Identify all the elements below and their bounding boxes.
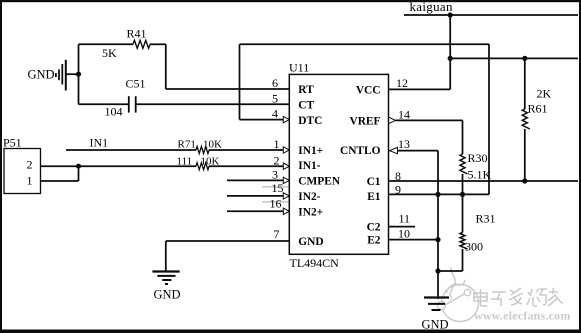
svg-text:IN2+: IN2+ — [298, 207, 323, 219]
wire: R31 bottom link — [438, 270, 463, 272]
svg-text:2: 2 — [274, 154, 280, 168]
wire: CMPEN stub pin 3 — [227, 179, 284, 181]
wire: GND line pin 7 — [166, 241, 289, 271]
svg-text:10: 10 — [398, 227, 410, 241]
wire: feedback line B top — [240, 43, 490, 45]
resistor R61 — [522, 58, 530, 181]
svg-text:5K: 5K — [102, 46, 117, 60]
resistor R30 — [460, 154, 468, 194]
svg-text:IN1-: IN1- — [298, 160, 320, 172]
svg-text:CMPEN: CMPEN — [298, 176, 341, 188]
svg-text:R41: R41 — [127, 27, 147, 41]
svg-text:8: 8 — [395, 169, 401, 183]
svg-text:CNTLO: CNTLO — [340, 145, 381, 157]
svg-text:1: 1 — [274, 137, 280, 151]
svg-text:IN1: IN1 — [90, 136, 109, 150]
pin 1 arrow — [283, 147, 289, 153]
junction R30 bottom — [460, 192, 465, 197]
wire: branch line y58 — [450, 57, 578, 59]
svg-text:111: 111 — [177, 156, 193, 168]
watermark logo — [438, 267, 479, 322]
svg-text:E2: E2 — [367, 235, 381, 247]
svg-text:R71: R71 — [178, 139, 196, 151]
junction at GND riser — [76, 72, 81, 77]
resistor R31 — [460, 194, 468, 271]
svg-text:GND: GND — [154, 288, 181, 302]
junction E2 — [435, 237, 440, 242]
svg-text:1: 1 — [27, 174, 33, 188]
resistor R41 — [133, 40, 150, 48]
pin 4 arrow — [283, 116, 289, 122]
pin 2 arrow — [283, 163, 289, 169]
junction R61 bottom — [522, 178, 527, 183]
wire: CT line pin 5 with C51 — [79, 103, 290, 105]
svg-text:R30: R30 — [468, 151, 488, 165]
svg-text:14: 14 — [398, 108, 410, 122]
svg-text:11: 11 — [399, 212, 411, 226]
svg-text:R61: R61 — [528, 102, 548, 116]
pin 16 arrow — [283, 208, 289, 214]
wire: vertical x240 to DTC — [239, 44, 241, 119]
svg-text:3: 3 — [272, 168, 278, 182]
pin 3 arrow — [283, 177, 289, 183]
wire: C1 pin 8 line — [389, 180, 579, 182]
wire: VCC pin 12 — [389, 15, 451, 89]
svg-text:10K: 10K — [201, 156, 220, 168]
svg-text:300: 300 — [465, 240, 483, 254]
svg-text:16: 16 — [270, 197, 282, 211]
junction R31 bottom — [435, 268, 440, 273]
svg-text:15: 15 — [272, 181, 284, 195]
svg-text:9: 9 — [395, 183, 401, 197]
svg-text:6: 6 — [272, 76, 278, 90]
svg-text:DTC: DTC — [298, 115, 322, 127]
pin 14 arrow — [389, 117, 396, 123]
wire: vertical from R41 down to RT — [165, 44, 167, 89]
svg-text:RT: RT — [298, 84, 314, 96]
wire: E1 pin 9 line — [389, 44, 490, 194]
svg-text:5: 5 — [272, 92, 278, 106]
wire: kaiguan line — [404, 14, 578, 16]
ground right earth symbol — [424, 298, 449, 311]
wire: C2 pin 11 stub — [389, 226, 416, 228]
svg-text:IN2-: IN2- — [298, 191, 320, 203]
resistor R72 — [196, 163, 209, 170]
wire: top line from GND riser through R41 — [79, 43, 166, 45]
ground mid earth symbol — [152, 272, 179, 285]
svg-text:C51: C51 — [126, 77, 146, 91]
svg-text:104: 104 — [105, 105, 123, 119]
svg-text:IN1+: IN1+ — [298, 145, 323, 157]
svg-text:VCC: VCC — [356, 84, 381, 96]
wire: left riser x78 — [78, 44, 80, 104]
svg-text:C1: C1 — [367, 176, 381, 188]
svg-text:2: 2 — [27, 158, 33, 172]
svg-text:7: 7 — [274, 227, 280, 241]
svg-text:2K: 2K — [537, 87, 552, 101]
wire: IN2+ stub pin 16 — [227, 210, 284, 212]
svg-text:E1: E1 — [367, 191, 381, 203]
junction vcc riser — [448, 56, 453, 61]
svg-text:GND: GND — [28, 68, 55, 82]
ghost line 16 — [262, 201, 290, 203]
wire: DTC line pin 4 — [240, 119, 284, 121]
pin 13 arrow — [390, 147, 398, 153]
border frame — [0, 0, 581, 2]
wire: IN1- line pin 2 right part — [209, 165, 284, 167]
svg-text:10K: 10K — [203, 139, 222, 151]
svg-text:VREF: VREF — [349, 115, 380, 127]
junction pin13 on pin9 — [435, 192, 440, 197]
svg-text:TL494CN: TL494CN — [290, 256, 340, 270]
wire: IN1 line pin 1 — [66, 149, 284, 151]
wire: E2 pin 10 line — [389, 239, 439, 241]
svg-text:GND: GND — [422, 318, 449, 332]
wire: VREF pin 14 — [396, 120, 463, 154]
capacitor C51 — [129, 96, 136, 112]
watermark text — [474, 288, 563, 306]
svg-text:www.elecfans.com: www.elecfans.com — [474, 309, 571, 323]
svg-text:CT: CT — [298, 100, 314, 112]
op-amp U11 chip body — [289, 74, 388, 254]
svg-text:P51: P51 — [3, 136, 22, 150]
svg-text:U11: U11 — [289, 61, 309, 75]
wire: CNTLO pin 13 — [398, 151, 439, 299]
wire: P51 pin1 up — [41, 166, 79, 181]
ghost line 15 — [262, 186, 290, 188]
pin 15 arrow — [283, 193, 289, 199]
wire: P51 pin2 to IN1- line — [41, 165, 197, 167]
svg-text:R31: R31 — [476, 212, 496, 226]
svg-text:C2: C2 — [367, 221, 381, 233]
resistor R71 — [196, 147, 209, 154]
connector P51 box — [4, 149, 41, 194]
svg-text:12: 12 — [396, 76, 408, 90]
junction R61 top — [522, 56, 527, 61]
svg-text:13: 13 — [398, 137, 410, 151]
junction P51 tie — [76, 164, 81, 169]
wire: RT line pin 6 — [166, 88, 289, 90]
svg-text:5.1K: 5.1K — [468, 168, 492, 182]
junction kaiguan — [448, 12, 453, 17]
wire: IN2- stub pin 15 — [227, 195, 284, 197]
svg-text:4: 4 — [272, 107, 278, 121]
svg-text:GND: GND — [298, 236, 323, 248]
ground GND left power bar — [56, 60, 79, 91]
